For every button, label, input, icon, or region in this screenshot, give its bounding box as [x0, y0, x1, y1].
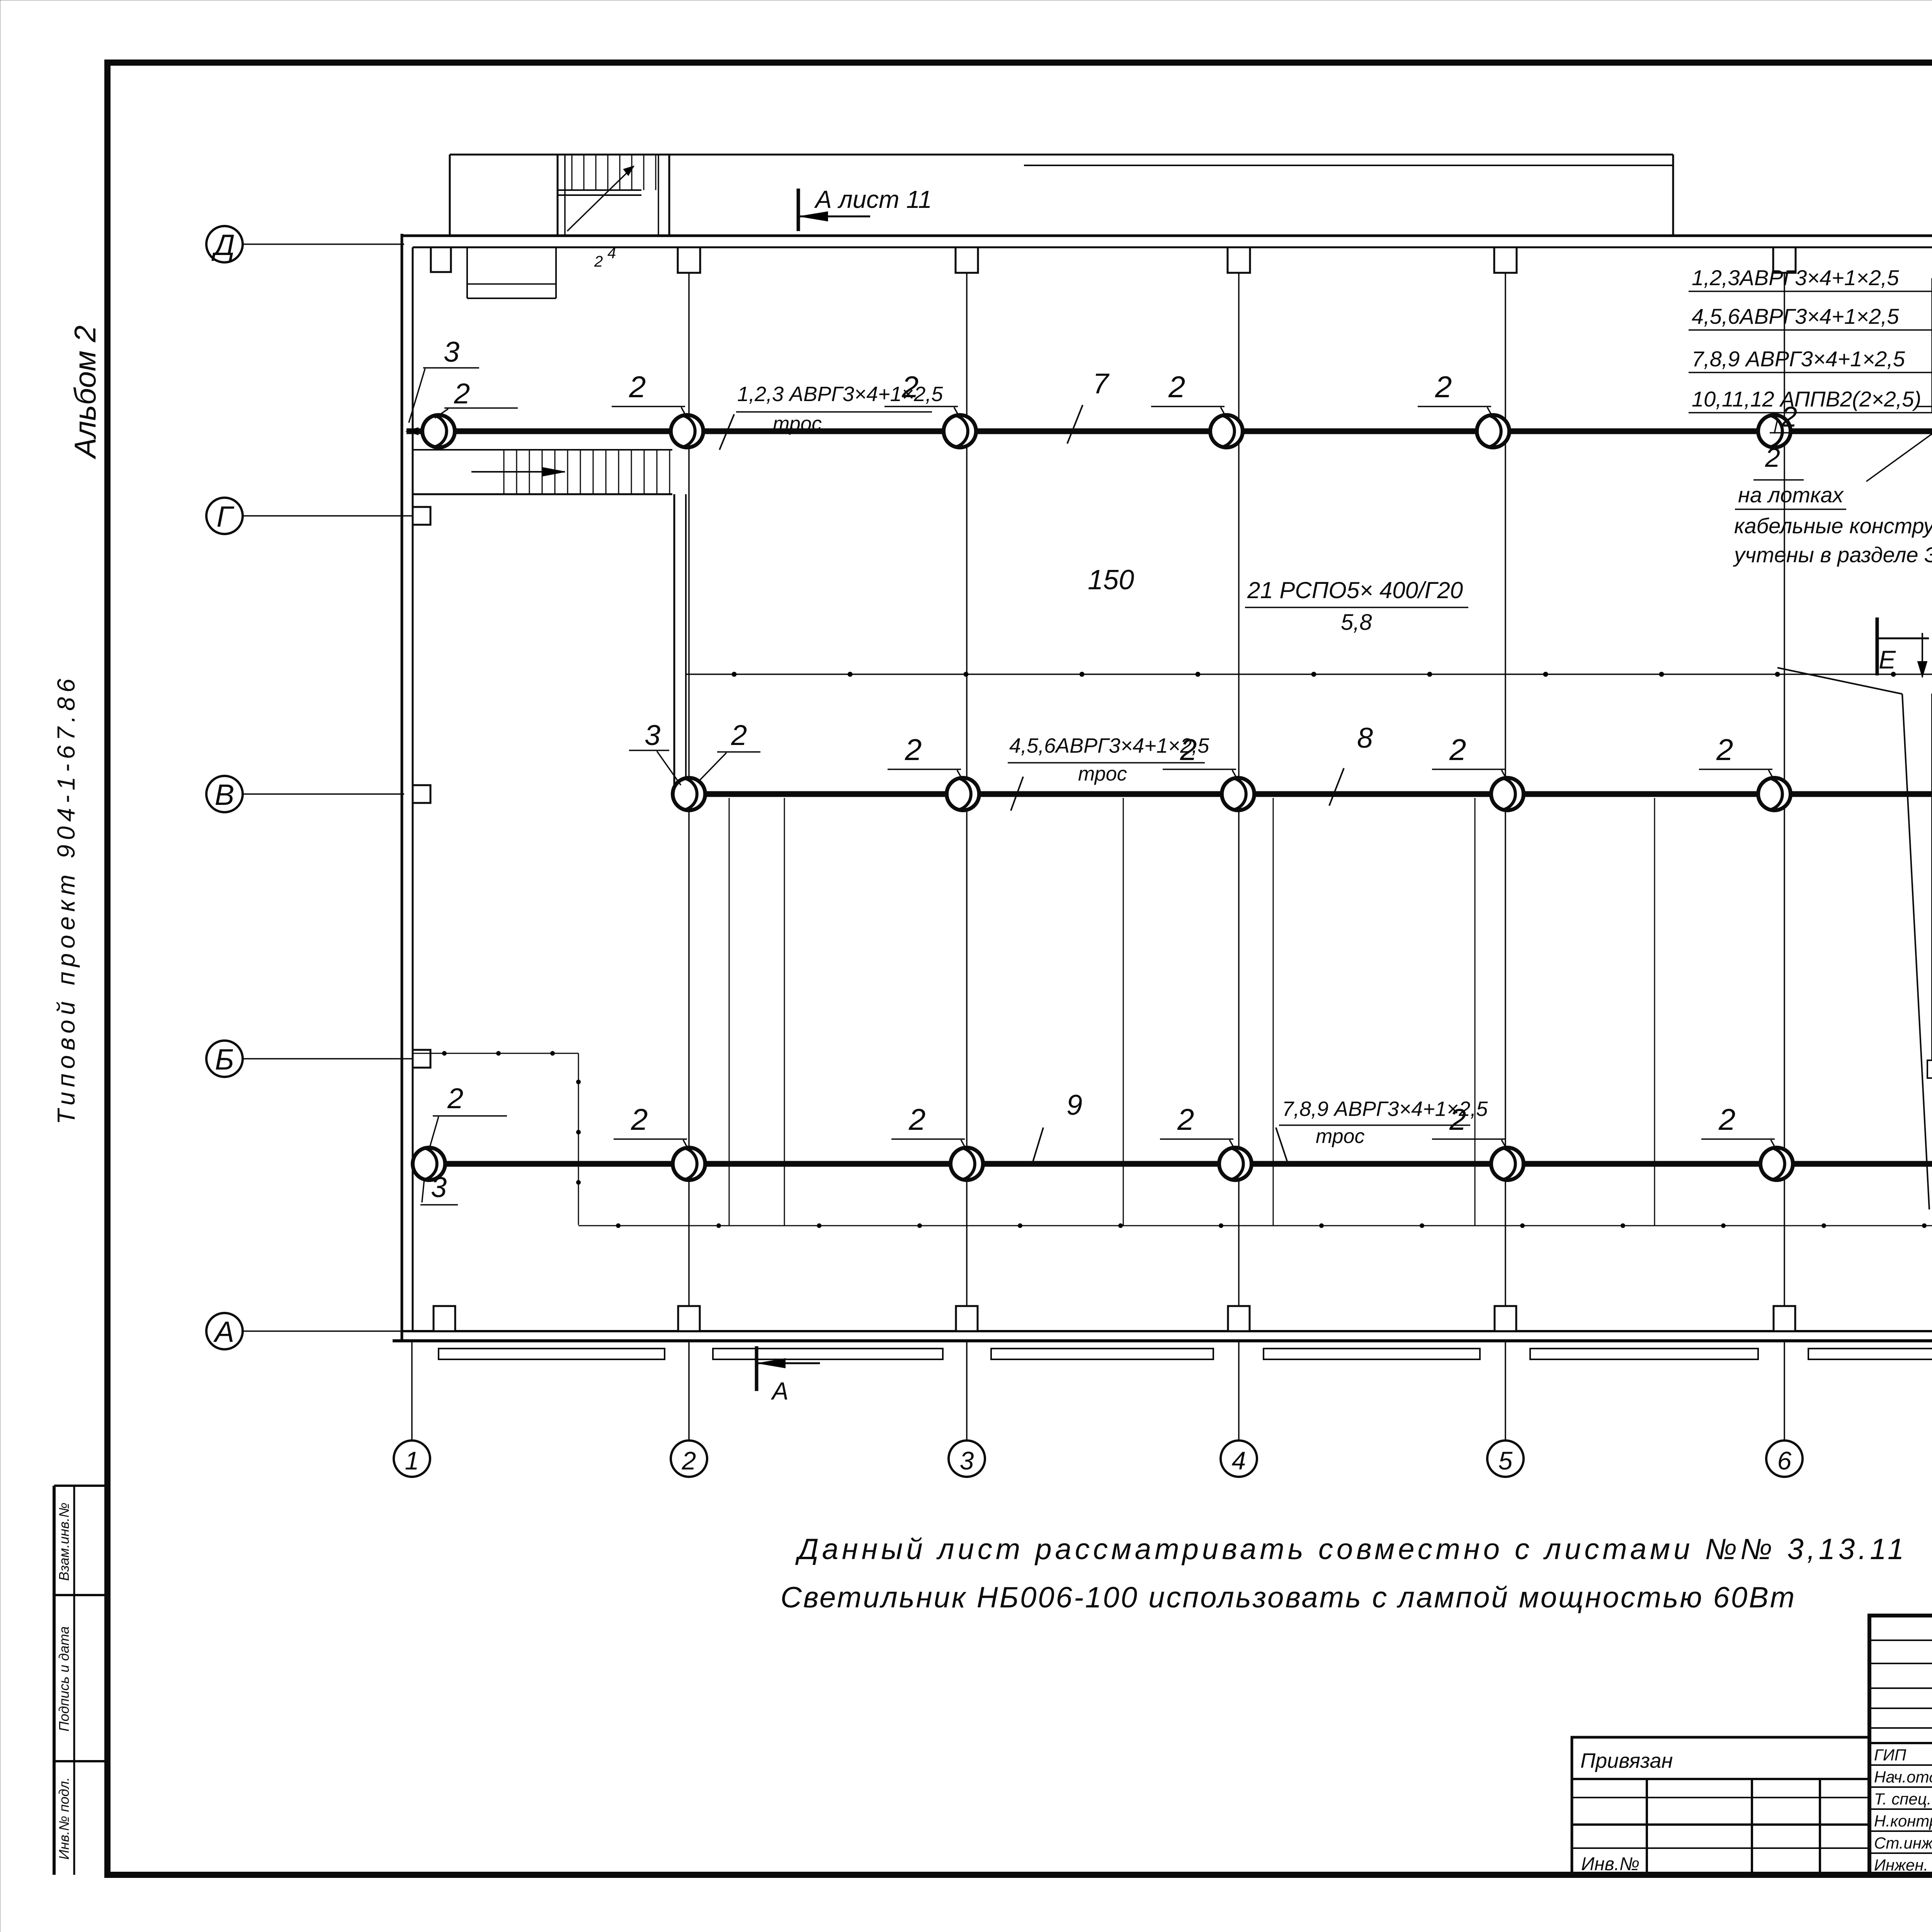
lamp row1-1: [422, 415, 455, 447]
bottom window strip 5: [1530, 1349, 1758, 1359]
label 150: [1088, 565, 1134, 595]
label 2 row1 x3864: [1418, 370, 1491, 414]
svg-text:учтены в разделе ЭТ: учтены в разделе ЭТ: [1733, 543, 1932, 567]
svg-text:1: 1: [405, 1446, 419, 1475]
wire group 2 line: [686, 791, 1932, 797]
svg-text:150: 150: [1088, 565, 1134, 595]
label 2 row2 x3901: [1432, 733, 1505, 777]
svg-text:А: А: [213, 1316, 235, 1349]
lamp row3-2: [673, 1148, 705, 1180]
label 2 row2 x2492: [888, 733, 961, 777]
equipment line 3: [1123, 798, 1124, 1226]
label 2 row3 lamp5: [1432, 1102, 1505, 1147]
svg-text:Т. спец.: Т. спец.: [1874, 1790, 1931, 1808]
svg-text:2: 2: [731, 719, 747, 751]
axis circle 4 with leader: [1221, 1342, 1257, 1477]
svg-text:5,8: 5,8: [1341, 610, 1372, 635]
svg-text:А: А: [770, 1377, 789, 1405]
label 2 row2 lamp6: [1699, 733, 1772, 777]
svg-text:2: 2: [908, 1102, 925, 1136]
label 2 row2 lamp1: [700, 719, 760, 780]
bottom window strip 3: [991, 1349, 1213, 1359]
svg-text:4,5,6АВРГ3×4+1×2,5: 4,5,6АВРГ3×4+1×2,5: [1692, 304, 1899, 328]
svg-text:7,8,9 АВРГ3×4+1×2,5: 7,8,9 АВРГ3×4+1×2,5: [1692, 347, 1905, 371]
svg-text:4: 4: [607, 245, 616, 262]
svg-text:2: 2: [447, 1082, 463, 1114]
lamp row2-5: [1758, 778, 1791, 810]
label 2 row3 x3197: [1160, 1102, 1233, 1147]
svg-text:1,2,3АВРГ3×4+1×2,5: 1,2,3АВРГ3×4+1×2,5: [1692, 265, 1899, 290]
svg-text:4,5,6АВРГ3×4+1×2,5: 4,5,6АВРГ3×4+1×2,5: [1009, 734, 1209, 757]
grid line column 2: [688, 249, 690, 1331]
svg-text:2: 2: [682, 1446, 696, 1475]
label 2 row3 lamp6: [1701, 1102, 1775, 1147]
svg-text:Взам.инв.№: Взам.инв.№: [56, 1503, 72, 1581]
lamp row2-3: [1222, 778, 1254, 810]
wire group 1 line: [406, 429, 1932, 434]
label privyazan: [1580, 1749, 1673, 1772]
svg-text:7: 7: [1093, 367, 1110, 400]
label 8 wire2: [1329, 722, 1373, 806]
label 2 on trays: [1753, 442, 1804, 480]
svg-text:Нач.отд.: Нач.отд.: [1874, 1768, 1932, 1786]
svg-text:трос: трос: [773, 413, 822, 435]
label 2 row1 lamp6: [1770, 401, 1824, 434]
wire 1 start tick: [406, 428, 418, 435]
left wall: [402, 234, 413, 1341]
label 2 row1 x1778: [612, 370, 685, 414]
svg-text:6: 6: [1777, 1446, 1792, 1475]
section mark A bottom: [757, 1346, 820, 1405]
svg-text:2: 2: [631, 1102, 648, 1136]
stair 2 mid-left: [413, 450, 672, 494]
margin text Album 2: [68, 325, 102, 459]
equipment line 2: [784, 798, 785, 1226]
title block grid: [1869, 1616, 1932, 1875]
svg-text:А лист 11: А лист 11: [814, 185, 932, 213]
axis circle 6 with leader: [1766, 1342, 1803, 1477]
bottom pilaster 3: [956, 1306, 978, 1331]
margin stamp table: [54, 1486, 107, 1875]
axis circle Б with leader: [206, 1041, 413, 1077]
bottom window strip 2: [713, 1349, 943, 1359]
label 3 row2 start: [629, 719, 681, 785]
section mark A list 11: [798, 185, 932, 231]
svg-text:В: В: [215, 779, 235, 811]
wire group 3 line: [412, 1161, 1932, 1167]
label 21 RSPO5: [1245, 577, 1468, 635]
signature row Ст.инж.: [1874, 1834, 1932, 1852]
margin text project number: [52, 674, 80, 1124]
lamp row2-4: [1491, 778, 1524, 810]
cable list label 4: [1689, 387, 1932, 413]
bottom wall: [393, 1331, 1932, 1341]
lamp row3-4: [1219, 1148, 1252, 1180]
dotted equipment boundary: [413, 1051, 1932, 1228]
svg-text:трос: трос: [1316, 1125, 1365, 1148]
cable list label 1: [1689, 265, 1932, 291]
lamp row1-2: [671, 415, 703, 447]
grid line column 6: [1784, 249, 1785, 1331]
left wall pilaster G: [413, 507, 430, 525]
lamp row2-2: [947, 778, 979, 810]
cable label group3: [1276, 1097, 1488, 1162]
cable list label 3: [1689, 347, 1932, 372]
label 9 wire3: [1032, 1089, 1082, 1163]
svg-text:2: 2: [1449, 733, 1466, 767]
label 2 row3 x1783: [614, 1102, 687, 1147]
svg-text:10,11,12 АППВ2(2×2,5): 10,11,12 АППВ2(2×2,5): [1692, 387, 1921, 411]
svg-text:Инжен.: Инжен.: [1874, 1856, 1928, 1874]
svg-text:2: 2: [1716, 733, 1733, 767]
svg-text:Н.контр.: Н.контр.: [1874, 1812, 1932, 1830]
equipment line 5: [1475, 798, 1476, 1226]
privyazan table: [1572, 1737, 1869, 1875]
lamp row1-5: [1477, 415, 1509, 447]
svg-text:Привязан: Привязан: [1580, 1749, 1673, 1772]
stair 1 top: [558, 155, 669, 270]
svg-text:Данный лист рассматривать: Данный лист рассматривать совместно с ли…: [795, 1533, 1907, 1566]
svg-text:8: 8: [1357, 722, 1373, 754]
top pilaster column 3: [956, 247, 978, 273]
section mark E left: [1877, 617, 1929, 677]
label 2 row3 lamp1: [430, 1082, 507, 1146]
svg-text:2: 2: [454, 378, 470, 410]
axis circle 5 with leader: [1487, 1342, 1524, 1477]
svg-text:Д: Д: [211, 229, 235, 262]
signature row ГИП: [1874, 1746, 1932, 1764]
grid line column 5: [1505, 249, 1506, 1331]
svg-text:Инв.№: Инв.№: [1581, 1854, 1639, 1874]
axis circle 1 with leader: [394, 1342, 430, 1477]
signature row Инжен.: [1874, 1856, 1932, 1874]
svg-text:2: 2: [1435, 370, 1452, 404]
svg-text:5: 5: [1498, 1446, 1513, 1475]
lamp row3-6: [1760, 1148, 1793, 1180]
internal wall column 2 line: [674, 494, 686, 794]
note na lotkah: [1733, 400, 1932, 567]
note line 2: [781, 1581, 1796, 1614]
label 7 wire1: [1067, 367, 1110, 444]
svg-text:на лотках: на лотках: [1738, 483, 1844, 507]
svg-text:2: 2: [1168, 370, 1185, 404]
svg-text:Е: Е: [1879, 645, 1896, 674]
grid line column 3: [966, 249, 968, 1331]
grid line column 4: [1238, 249, 1240, 1331]
lamp row1-3: [944, 415, 976, 447]
svg-text:4: 4: [1232, 1446, 1246, 1475]
svg-text:3: 3: [645, 719, 660, 751]
bottom pilaster 5: [1495, 1306, 1516, 1331]
bottom pilaster 4: [1228, 1306, 1250, 1331]
equipment line 6: [1654, 798, 1655, 1226]
svg-text:21 РСПО5× 400/Г20: 21 РСПО5× 400/Г20: [1247, 577, 1463, 603]
cable list bracket: [1931, 278, 1932, 413]
equipment line 1: [729, 798, 730, 1226]
equipment line 4: [1273, 798, 1274, 1226]
label 3 row3 lamp1: [420, 1171, 458, 1205]
long diagonal line: [1777, 668, 1929, 1209]
signature row Т. спец.: [1874, 1790, 1932, 1808]
lamp row3-5: [1491, 1148, 1524, 1180]
svg-text:Светильник НБ006-100 использ: Светильник НБ006-100 использовать с ламп…: [781, 1581, 1796, 1614]
axis circle Г with leader: [206, 498, 413, 534]
left wall pilaster V: [413, 785, 430, 803]
label 2 row1 x3174: [1151, 370, 1225, 414]
svg-text:Ст.инж.: Ст.инж.: [1874, 1834, 1932, 1852]
margin label Vzam inv: [56, 1503, 72, 1581]
room corner box left: [1927, 1060, 1932, 1078]
axis circle А with leader: [206, 1313, 402, 1349]
svg-text:Г: Г: [216, 500, 235, 533]
cable list label 2: [1689, 304, 1932, 330]
top pilaster left corner: [431, 247, 451, 272]
svg-text:Б: Б: [215, 1043, 234, 1076]
cable label group2: [1008, 734, 1209, 811]
svg-text:кабельные конструкции: кабельные конструкции: [1734, 514, 1932, 538]
svg-text:Инв.№ подл.: Инв.№ подл.: [56, 1777, 72, 1859]
label inv no: [1581, 1854, 1639, 1874]
svg-text:1,2,3 АВРГ3×4+1×2,5: 1,2,3 АВРГ3×4+1×2,5: [737, 383, 943, 406]
svg-text:2: 2: [1765, 442, 1780, 473]
signature row Н.контр.: [1874, 1812, 1932, 1830]
signature row Нач.отд.: [1874, 1768, 1932, 1786]
svg-text:трос: трос: [1078, 763, 1127, 785]
note line 1: [795, 1533, 1907, 1566]
parapet gallery outline: [450, 155, 1673, 236]
label 2 row2 x3204: [1163, 733, 1236, 777]
top pilaster column 4: [1228, 247, 1250, 273]
svg-text:2: 2: [1177, 1102, 1194, 1136]
svg-text:2: 2: [594, 253, 603, 270]
svg-text:2: 2: [905, 733, 922, 767]
bottom window strip 6: [1808, 1349, 1932, 1359]
lamp row1-6: [1758, 415, 1791, 447]
svg-text:3: 3: [960, 1446, 974, 1475]
lamp row2-1: [673, 778, 705, 810]
label 2 row1 x2484: [884, 370, 958, 414]
top pilaster column 2: [678, 247, 700, 273]
left wall pilaster B: [413, 1050, 430, 1068]
lamp row1-4: [1210, 415, 1243, 447]
svg-text:2: 2: [1449, 1102, 1466, 1136]
bottom window strip 4: [1264, 1349, 1480, 1359]
top pilaster column 5: [1494, 247, 1517, 273]
margin label Inv nomer podl: [56, 1777, 72, 1859]
svg-text:3: 3: [431, 1171, 447, 1203]
svg-text:Подпись и дата: Подпись и дата: [56, 1626, 72, 1731]
label 3 row1 start: [409, 336, 479, 423]
top pilaster column 6: [1773, 247, 1796, 273]
bottom window strip 1: [439, 1349, 665, 1359]
axis circle 2 with leader: [671, 1342, 707, 1477]
label 2 row1 lamp1: [435, 378, 518, 418]
svg-text:2: 2: [629, 370, 646, 404]
svg-text:Альбом 2: Альбом 2: [68, 325, 102, 459]
svg-text:2: 2: [1718, 1102, 1735, 1136]
lamp row3-3: [951, 1148, 983, 1180]
svg-text:3: 3: [444, 336, 459, 368]
label 2 row1 lamp7: [1916, 375, 1932, 423]
svg-text:Типовой проект 904-1-67.86: Типовой проект 904-1-67.86: [52, 674, 80, 1124]
mezzanine edge line: [686, 672, 1932, 677]
bottom pilaster 6: [1774, 1306, 1795, 1331]
axis circle В with leader: [206, 776, 404, 812]
axis circle 3 with leader: [949, 1342, 985, 1477]
cable label group1: [719, 383, 943, 450]
svg-text:ГИП: ГИП: [1874, 1746, 1906, 1764]
bottom pilaster 1: [434, 1306, 455, 1331]
svg-text:9: 9: [1066, 1089, 1082, 1121]
bottom pilaster 2: [678, 1306, 700, 1331]
top wall recess: [467, 247, 556, 298]
margin label Podpis i data: [56, 1626, 72, 1731]
label 2 row3 x2502: [891, 1102, 965, 1147]
top wall: [402, 236, 1932, 247]
axis circle Д with leader: [206, 226, 404, 262]
lamp row3-1: [413, 1148, 445, 1180]
